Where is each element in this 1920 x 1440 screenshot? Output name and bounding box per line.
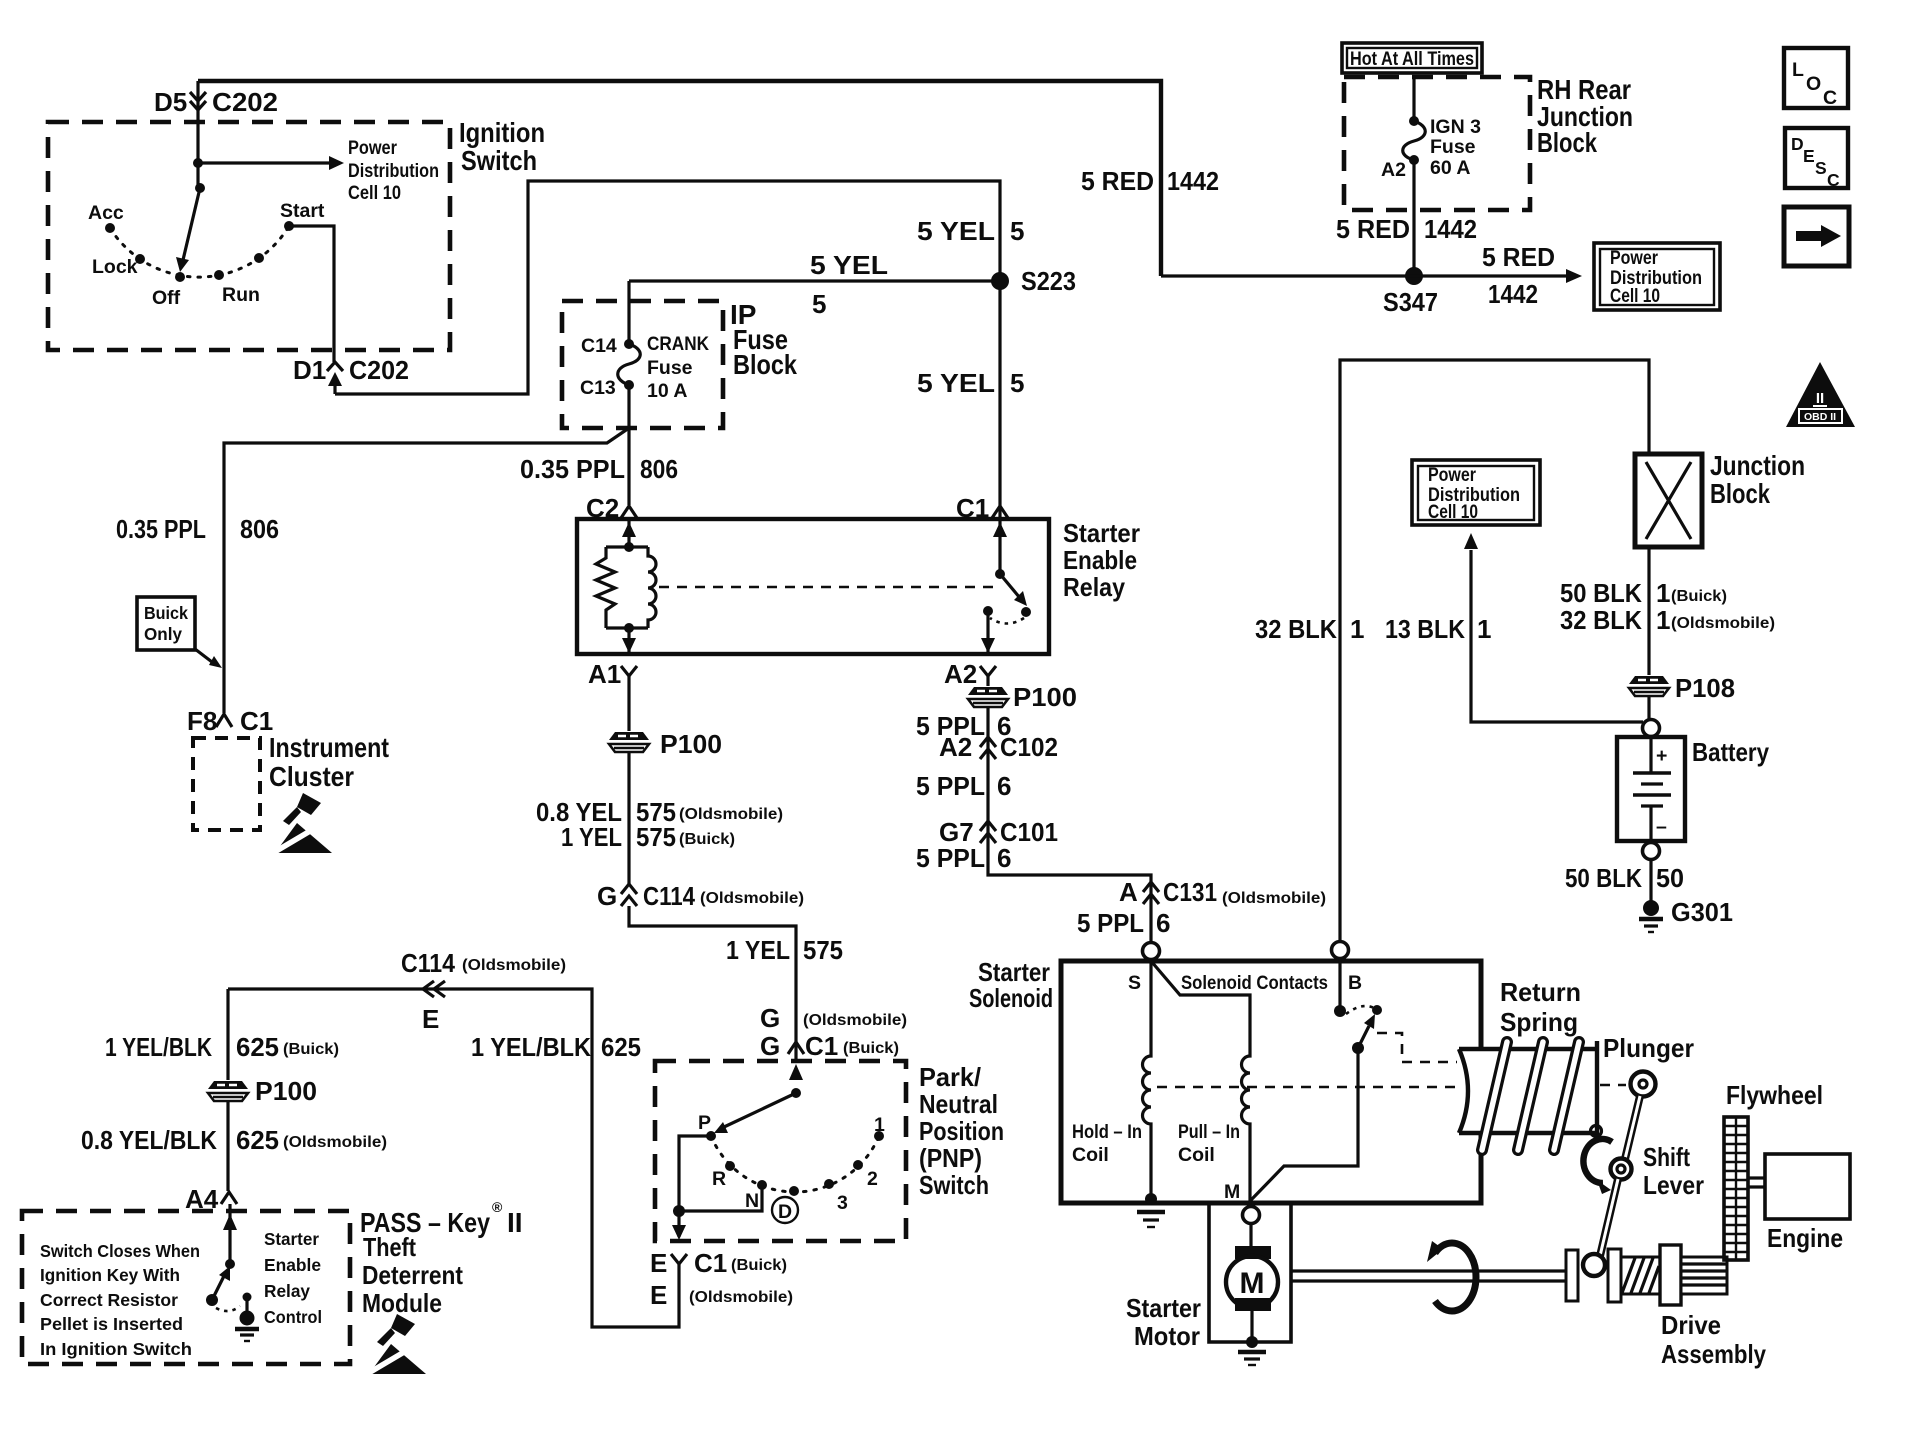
svg-text:5: 5 [1010,368,1024,398]
svg-text:3: 3 [837,1192,848,1214]
contact P [706,1131,716,1141]
ground below solenoid [1137,1210,1165,1214]
drive assembly collar 3 [1660,1245,1681,1305]
svg-text:Switch: Switch [919,1170,989,1200]
svg-text:N: N [745,1190,759,1212]
svg-text:(Buick): (Buick) [1671,588,1727,605]
contact Run [214,270,224,280]
svg-text:G: G [760,1003,780,1033]
contact D [789,1186,799,1196]
svg-text:Module: Module [362,1288,442,1318]
svg-text:Neutral: Neutral [919,1089,998,1119]
svg-text:D: D [778,1201,792,1223]
svg-text:M: M [1224,1181,1240,1203]
svg-text:5: 5 [812,289,826,319]
svg-text:Lever: Lever [1643,1170,1704,1200]
ignition switch wiper arm with arrowhead at Off [183,188,200,260]
PASS-Key switch travel dashed arc [216,1306,240,1311]
svg-text:C202: C202 [212,87,278,117]
connector C101 pin G7 (double chevron) [980,821,996,843]
rotation arrow at lever [1583,1139,1612,1183]
solenoid moving contact arm [1352,1042,1364,1054]
svg-text:II: II [507,1207,523,1238]
rotation arrow on shaft [1435,1243,1476,1311]
svg-text:Relay: Relay [1063,572,1125,602]
wire 13 BLK 1 branch to Power Distribution [1471,550,1643,722]
solenoid contact dashed travel arc [1346,1006,1374,1014]
svg-text:A: A [1119,877,1138,907]
svg-text:C1: C1 [956,493,989,523]
svg-text:32 BLK: 32 BLK [1560,605,1642,635]
engine box [1765,1154,1850,1219]
connector P100 (A1 wire) [609,732,649,752]
svg-text:Position: Position [919,1116,1004,1146]
wire arrow to Power Distribution Cell 10 (ignition) [198,161,330,164]
wire 0.8 YEL 575 [627,753,630,885]
svg-text:1: 1 [874,1114,885,1136]
junction block symbol [1635,454,1702,547]
svg-text:Only: Only [144,624,182,644]
svg-text:(PNP): (PNP) [919,1143,982,1173]
svg-text:1: 1 [1477,614,1491,644]
contact N [757,1180,767,1190]
svg-text:5 PPL: 5 PPL [916,843,985,873]
dashed linkage to plunger [1377,1033,1457,1062]
svg-text:Flywheel: Flywheel [1726,1080,1823,1110]
svg-text:S: S [1128,972,1141,994]
connector C114 pin G (double chevron) [621,884,637,906]
svg-text:Solenoid Contacts: Solenoid Contacts [1181,972,1328,994]
svg-text:Pull – In: Pull – In [1178,1121,1240,1143]
svg-text:Starter: Starter [1126,1293,1201,1323]
pull-in coil fed from S [1151,961,1250,1203]
svg-text:Cell 10: Cell 10 [348,182,401,204]
connector C202 pin D1 (chevron up) [327,362,343,371]
svg-text:806: 806 [640,454,678,484]
flywheel ring gear [1724,1117,1748,1260]
svg-text:G: G [597,881,617,911]
instrument cluster dashed box [193,738,260,830]
svg-text:32 BLK: 32 BLK [1255,614,1337,644]
contact Off [175,272,185,282]
svg-text:Switch: Switch [461,145,537,176]
svg-text:D: D [1791,134,1804,154]
svg-text:Run: Run [222,284,260,306]
svg-text:(Oldsmobile): (Oldsmobile) [689,1289,793,1306]
contact (unlabeled) [254,253,264,263]
svg-text:Acc: Acc [88,202,124,224]
wire A1 exit with down arrow [627,628,630,653]
terminal M open circle [1243,1207,1260,1224]
svg-text:625: 625 [236,1032,279,1062]
Power Distribution Cell 10 box (left) [1412,460,1540,525]
svg-text:Return: Return [1500,977,1581,1007]
dashed mechanical link hold-in to plunger [1157,1086,1455,1089]
svg-text:50 BLK: 50 BLK [1565,863,1642,893]
wire ignition feed to wiper [196,163,199,188]
svg-text:Starter: Starter [1063,518,1140,548]
node below battery (open circle) [1643,843,1660,860]
PNP entry arrow and wiper [789,1064,803,1080]
spring coil 2 [1518,1042,1543,1150]
svg-text:–: – [1656,816,1667,838]
svg-text:Switch Closes When: Switch Closes When [40,1241,200,1261]
shaft from motor [1291,1271,1566,1281]
LOC legend box [1784,48,1848,108]
svg-text:Hold – In: Hold – In [1072,1121,1142,1143]
svg-text:Cell 10: Cell 10 [1610,285,1660,307]
IP fuse block dashed box [562,301,723,428]
wire to battery node [1647,697,1650,719]
svg-text:II: II [1816,390,1824,407]
svg-text:(Buick): (Buick) [731,1257,787,1274]
svg-text:Instrument: Instrument [269,732,389,763]
svg-text:(Oldsmobile): (Oldsmobile) [803,1012,907,1029]
connector C131 pin A (double chevron) [1143,882,1159,904]
svg-text:P: P [698,1112,711,1134]
svg-text:5 RED: 5 RED [1081,166,1154,196]
wire 5 YEL from D1 over to relay C1 column [335,181,1000,519]
svg-text:C131: C131 [1163,877,1217,907]
svg-text:C2: C2 [586,493,619,523]
svg-text:6: 6 [997,843,1011,873]
svg-text:Pellet is Inserted: Pellet is Inserted [40,1314,183,1334]
terminal S open circle [1143,943,1160,960]
svg-text:Coil: Coil [1072,1144,1109,1166]
svg-text:OBD II: OBD II [1804,411,1836,423]
relay U1 box [577,519,1049,654]
svg-text:Park/: Park/ [919,1062,981,1092]
fuse IGN 3 60A element [1403,121,1426,160]
svg-text:1: 1 [1656,578,1670,608]
node S347 [1405,267,1423,285]
svg-text:Theft: Theft [363,1232,416,1262]
svg-text:Enable: Enable [264,1255,321,1275]
svg-text:Fuse: Fuse [1430,136,1476,158]
svg-text:Assembly: Assembly [1661,1339,1766,1369]
ignition rotary contact dashed arc [110,226,289,277]
contact 3 [824,1179,834,1189]
svg-text:0.35 PPL: 0.35 PPL [520,454,625,484]
PASS-Key switch arm [206,1294,218,1306]
svg-text:Starter: Starter [264,1229,319,1249]
svg-text:1 YEL: 1 YEL [561,822,622,852]
dashed link plunger to shift lever [1600,1084,1626,1087]
wire motor to ground [1250,1311,1253,1342]
svg-text:Buick: Buick [144,603,188,623]
wire E from PNP to C114 and to P100/A4 [228,989,679,1327]
svg-text:C1: C1 [805,1031,838,1061]
svg-text:P108: P108 [1675,673,1735,703]
relay switch: C1 entry with up arrow [998,519,1001,574]
exit arrow down [677,1211,680,1237]
shift lever pivot [1611,1159,1632,1180]
svg-text:(Oldsmobile): (Oldsmobile) [283,1134,387,1151]
node above battery (open circle) [1643,720,1660,737]
motor frame [1209,1203,1291,1342]
svg-text:Block: Block [1537,127,1597,158]
arrow from Buick Only box to wire [195,649,212,662]
svg-text:P100: P100 [1013,682,1077,712]
svg-text:Relay: Relay [264,1281,310,1301]
connector C102 pin A2 (double chevron) [980,737,996,759]
svg-text:Coil: Coil [1178,1144,1215,1166]
wire P and N to E output [679,1136,762,1211]
wire 5 RED to Power Distribution Cell 10 with arrow [1161,274,1566,277]
svg-text:6: 6 [1156,908,1170,938]
wire 5 PPL 6 chain [988,708,1151,941]
wire 0.35 PPL below fuse [627,385,630,505]
svg-text:E: E [422,1004,439,1034]
dashed relay actuation link [659,586,996,589]
svg-text:575: 575 [636,822,676,852]
svg-text:625: 625 [236,1125,279,1155]
wire 32 BLK 1 from solenoid B up and over to junction block [1340,360,1649,941]
svg-text:Junction: Junction [1710,450,1805,481]
svg-text:S347: S347 [1383,287,1438,317]
wire A2 to P100 [986,676,989,686]
svg-text:Plunger: Plunger [1603,1033,1694,1063]
svg-text:625: 625 [601,1032,641,1062]
svg-text:C13: C13 [580,377,616,399]
svg-text:806: 806 [240,514,279,544]
svg-text:C114: C114 [401,948,455,978]
ESD symbol (instrument cluster) [273,793,332,853]
svg-text:Cell 10: Cell 10 [1428,501,1478,523]
ESD symbol (PASS-Key) [367,1314,426,1374]
svg-text:575: 575 [803,935,843,965]
connector P100 (A2 wire) [968,687,1008,707]
svg-text:C1: C1 [694,1248,727,1278]
motor brush top [1235,1246,1271,1259]
svg-text:G301: G301 [1671,897,1733,927]
svg-text:(Oldsmobile): (Oldsmobile) [462,957,566,974]
wire C2 entry with up arrow [627,519,630,547]
wire 1 YEL 575 to PNP G pin [629,906,796,1061]
PASS-Key contact with ground [243,1293,252,1302]
svg-text:5 RED: 5 RED [1336,214,1410,244]
svg-text:5 RED: 5 RED [1482,242,1555,272]
svg-text:1: 1 [1656,605,1670,635]
svg-text:D1: D1 [293,355,326,385]
contact 2 [853,1160,863,1170]
arm link down to M [1251,1048,1358,1200]
drive assembly screw section [1621,1257,1660,1294]
solenoid B contact [1338,959,1341,1011]
svg-text:5: 5 [1010,216,1024,246]
svg-text:P100: P100 [660,729,722,759]
starter solenoid box [1061,961,1481,1203]
return spring cylinder (plunger) [1461,1051,1595,1131]
flywheel to engine link [1748,1178,1765,1187]
svg-text:Drive: Drive [1661,1310,1721,1340]
svg-text:5 PPL: 5 PPL [1077,908,1144,938]
pin C1 (chevron) [992,506,1008,518]
svg-text:5 YEL: 5 YEL [917,368,995,398]
svg-text:Lock: Lock [92,256,138,278]
pin A1 (Y) [621,666,637,676]
svg-text:E: E [650,1248,667,1278]
wire into IGN3 fuse [1412,77,1415,121]
spring coil 3 [1554,1042,1579,1150]
arrow legend box [1784,207,1849,266]
svg-text:L: L [1792,59,1804,81]
DESC legend box [1785,128,1848,188]
svg-text:Off: Off [152,287,181,309]
PASS-Key II module dashed box [22,1211,350,1364]
svg-text:C: C [1827,170,1840,190]
Hot At All Times box [1342,43,1482,73]
node S223 [991,272,1009,290]
svg-text:E: E [1803,146,1815,166]
node: ignition feed junction dot [193,158,203,168]
svg-text:S223: S223 [1021,266,1076,296]
svg-text:Shift: Shift [1643,1142,1690,1172]
svg-text:Solenoid: Solenoid [969,983,1053,1013]
connector C1 pin F8 (chevron up) [216,714,232,727]
svg-text:Distribution: Distribution [348,160,439,182]
svg-text:1 YEL/BLK: 1 YEL/BLK [471,1032,591,1062]
wire 5 YEL branch to CRANK fuse [629,279,996,282]
svg-text:M: M [1240,1267,1265,1300]
svg-text:S: S [1815,158,1827,178]
svg-text:C202: C202 [349,355,409,385]
svg-text:0.35 PPL: 0.35 PPL [116,514,206,544]
relay contacts [983,606,993,616]
wire 0.8 YEL/BLK 625 [226,1102,229,1191]
svg-text:Power: Power [1610,247,1658,269]
svg-text:C114: C114 [643,881,695,911]
wire Start contact to D1 C202 [289,226,334,362]
svg-text:1442: 1442 [1167,166,1219,196]
svg-text:Battery: Battery [1692,737,1769,767]
wire 5 RED top horizontal from ignition D5 to right corner and down to S347 line [198,81,1161,276]
wire down to P100 [226,989,229,1080]
shift lever ball [1583,1254,1605,1276]
connector P100 (PASS-Key wire) [208,1081,248,1101]
pin C2 (chevron) [621,506,637,518]
svg-text:(Buick): (Buick) [843,1040,899,1057]
svg-text:®: ® [492,1199,503,1215]
svg-text:0.8 YEL/BLK: 0.8 YEL/BLK [81,1125,217,1155]
svg-text:(Oldsmobile): (Oldsmobile) [700,890,804,907]
RH Rear Junction Block dashed box [1344,77,1530,210]
svg-text:Motor: Motor [1134,1321,1200,1351]
connector P108 [1629,676,1669,696]
hold-in coil [1143,961,1152,1198]
Buick Only box [137,597,195,650]
shift lever lower arm [1600,1179,1618,1256]
svg-text:P100: P100 [255,1076,317,1106]
drive assembly collar 2 [1608,1249,1621,1302]
svg-text:6: 6 [997,771,1011,801]
svg-text:1 YEL/BLK: 1 YEL/BLK [105,1032,212,1062]
contact Start [284,221,294,231]
svg-text:5 PPL: 5 PPL [916,771,985,801]
svg-text:Block: Block [733,349,797,380]
svg-text:1442: 1442 [1488,279,1538,309]
svg-text:(Oldsmobile): (Oldsmobile) [1671,615,1775,632]
fuse CRANK 10A element [618,344,641,385]
svg-text:O: O [1806,73,1821,95]
shift lever upper arm [1625,1096,1640,1159]
svg-text:A1: A1 [588,659,621,689]
Power Distribution Cell 10 box (top right) [1594,243,1720,310]
svg-text:A2: A2 [1381,159,1406,181]
ground below motor [1238,1350,1266,1354]
PNP switch dashed box [655,1061,906,1241]
contact 1 [874,1131,884,1141]
svg-text:Cluster: Cluster [269,761,354,792]
connector C114 pin E (double chevron left) [423,981,445,997]
wire branch to instrument cluster [224,428,629,713]
OBD II triangle [1786,362,1855,427]
svg-text:+: + [1656,745,1667,767]
svg-text:50: 50 [1656,863,1684,893]
svg-text:1442: 1442 [1424,214,1477,244]
svg-text:60 A: 60 A [1430,157,1470,179]
wire A2 exit with down arrow [986,611,989,653]
svg-text:(Oldsmobile): (Oldsmobile) [679,806,783,823]
arrow up on D1 wire [328,372,342,386]
svg-text:50 BLK: 50 BLK [1560,578,1642,608]
wire 5 RED from fuse down to S347 [1412,160,1415,276]
wire into CRANK fuse [627,281,630,344]
svg-text:Power: Power [1428,464,1476,486]
battery [1649,736,1652,773]
wire A4 entry with up arrow [228,1204,231,1264]
svg-text:C: C [1823,87,1837,109]
wire M to motor [1249,1223,1252,1248]
wire 50 BLK 1 [1647,547,1650,675]
ignition switch dashed box [48,122,450,350]
wire 50 BLK 50 to ground [1649,859,1652,904]
svg-text:C102: C102 [1000,732,1058,762]
relay coil K1 (resistor + winding in parallel) [624,542,634,552]
wire A1 to P100 [627,676,630,731]
svg-text:Block: Block [1710,478,1770,509]
svg-text:2: 2 [867,1168,878,1190]
shift lever top eye [1631,1072,1656,1097]
svg-text:Engine: Engine [1767,1223,1843,1253]
node: wiper pivot dot [195,183,205,193]
ground G301 [1643,900,1659,916]
svg-text:D5: D5 [154,87,187,117]
svg-text:Fuse: Fuse [647,357,693,379]
spring end loop [1591,1126,1602,1137]
svg-text:13 BLK: 13 BLK [1385,614,1465,644]
connector C202 pin D5 (double chevron down) [190,92,206,110]
wire D5 feed drop into ignition switch [196,81,199,163]
svg-text:Enable: Enable [1063,545,1137,575]
svg-text:1: 1 [1350,614,1364,644]
svg-text:5 YEL: 5 YEL [917,216,995,246]
svg-text:Power: Power [348,137,397,159]
PNP contact dashed arc [711,1136,879,1192]
motor brush bottom [1235,1298,1271,1311]
svg-text:A2: A2 [939,732,972,762]
svg-text:10 A: 10 A [647,380,687,402]
contact R [725,1161,735,1171]
svg-text:(Buick): (Buick) [679,831,735,848]
svg-text:F8: F8 [187,706,217,736]
svg-text:CRANK: CRANK [647,333,709,355]
svg-text:5 YEL: 5 YEL [810,250,888,280]
svg-text:Hot At All Times: Hot At All Times [1350,48,1474,70]
svg-text:R: R [712,1168,726,1190]
contact Acc [105,223,115,233]
svg-text:B: B [1348,972,1362,994]
